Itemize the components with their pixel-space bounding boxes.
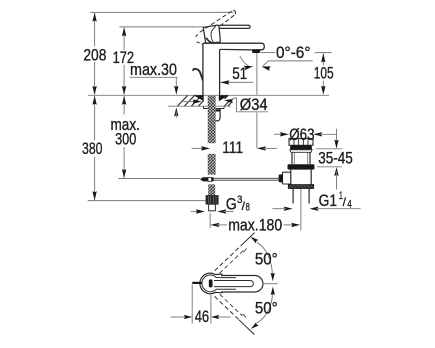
dimension 380	[94, 96, 96, 140]
G 3/8 connector nut	[206, 196, 218, 205]
drain collar	[288, 164, 315, 169]
top view cartridge rect	[209, 279, 213, 287]
top view body cap rim	[202, 275, 236, 292]
svg-text:50°: 50°	[255, 298, 278, 317]
extension line lever top	[119, 26, 203, 28]
reference line hose fitting level	[118, 178, 200, 180]
dashed swing line lower second	[220, 294, 243, 316]
aerator	[252, 50, 261, 53]
svg-text:Ø63: Ø63	[289, 125, 314, 144]
dimension 105	[315, 52, 332, 54]
label G 1 1/4	[284, 207, 293, 211]
top view pop-up rod	[192, 282, 202, 284]
dimension max.300	[123, 96, 125, 114]
svg-text:max.180: max.180	[228, 215, 282, 234]
deck hatching right	[225, 99, 231, 106]
top view lever bar inner	[214, 280, 253, 286]
pop-up linkage rod to drain	[214, 177, 282, 179]
svg-text:105: 105	[314, 63, 334, 82]
svg-text:46: 46	[195, 307, 210, 326]
dimension 111	[192, 147, 204, 149]
deck bottom line	[168, 105, 231, 107]
mounting washer	[203, 108, 224, 110]
dashed swing line upper second	[220, 251, 244, 274]
threaded shank and supply hoses	[208, 96, 216, 143]
svg-text:50°: 50°	[255, 250, 278, 269]
swing arc lower with arrows	[257, 291, 273, 323]
drain side port	[283, 172, 291, 184]
dimension 208	[94, 13, 96, 46]
handle block inner contour	[211, 26, 216, 42]
drain centerline extension	[300, 189, 302, 231]
spout angle arc 0-6 deg	[240, 56, 249, 66]
lever dashed (raised position)	[200, 10, 233, 32]
mounting nut	[214, 108, 221, 121]
drain flange crown	[289, 139, 313, 146]
dimension max.180	[209, 213, 211, 228]
svg-text:208: 208	[83, 46, 106, 65]
pop-up rod above deck	[193, 69, 203, 81]
base cone left	[194, 95, 204, 101]
diameter 34 hole annotation	[183, 101, 194, 103]
G 3/8 tube end	[209, 204, 216, 211]
svg-text:0°-6°: 0°-6°	[276, 43, 311, 62]
dimension 172	[123, 28, 125, 50]
base cone right	[219, 95, 229, 101]
svg-text:Ø34: Ø34	[240, 95, 268, 114]
G 3/8 thread arrows	[191, 211, 199, 213]
extension line collar level	[317, 166, 342, 168]
drain flange lip	[291, 146, 312, 150]
faucet handle pivot block	[203, 25, 220, 43]
extension line top (lever max height)	[90, 11, 233, 13]
dimension 46	[191, 285, 193, 324]
dashed swing line lower	[215, 296, 239, 319]
top view body cap outer	[200, 273, 223, 294]
drain flange skirt	[290, 150, 312, 153]
max.30 lower arrow below deck	[174, 107, 178, 116]
reference line supply end level	[88, 200, 206, 202]
svg-text:380: 380	[82, 139, 103, 158]
water stream extension line	[256, 53, 258, 95]
svg-text:max.30: max.30	[130, 60, 177, 79]
svg-text:300: 300	[115, 130, 136, 149]
extension line flange bottom	[316, 148, 342, 150]
drain locknut	[288, 185, 313, 189]
drain lower body	[290, 170, 292, 185]
top view lever outline	[221, 276, 263, 293]
dimension diameter 63	[274, 133, 282, 135]
drain tailpipe	[292, 189, 294, 204]
svg-text:G1: G1	[319, 191, 338, 210]
lever axis extension	[263, 283, 278, 285]
label 0-6 deg	[260, 52, 275, 54]
svg-text:G: G	[226, 195, 237, 213]
svg-text:35-45: 35-45	[318, 149, 353, 168]
drain side knob	[279, 174, 283, 182]
faucet body and spout outline	[203, 43, 264, 95]
hose rod junction	[200, 177, 208, 181]
svg-text:4: 4	[347, 199, 352, 211]
dashed swing line upper	[215, 245, 242, 271]
drain upper body	[291, 152, 293, 164]
deck hatching left	[178, 96, 188, 107]
swing arc upper with arrows	[257, 242, 273, 277]
deck top line	[88, 94, 329, 96]
faucet lever handle (solid)	[219, 25, 250, 28]
svg-text:8: 8	[246, 202, 250, 214]
svg-text:111: 111	[222, 138, 243, 157]
